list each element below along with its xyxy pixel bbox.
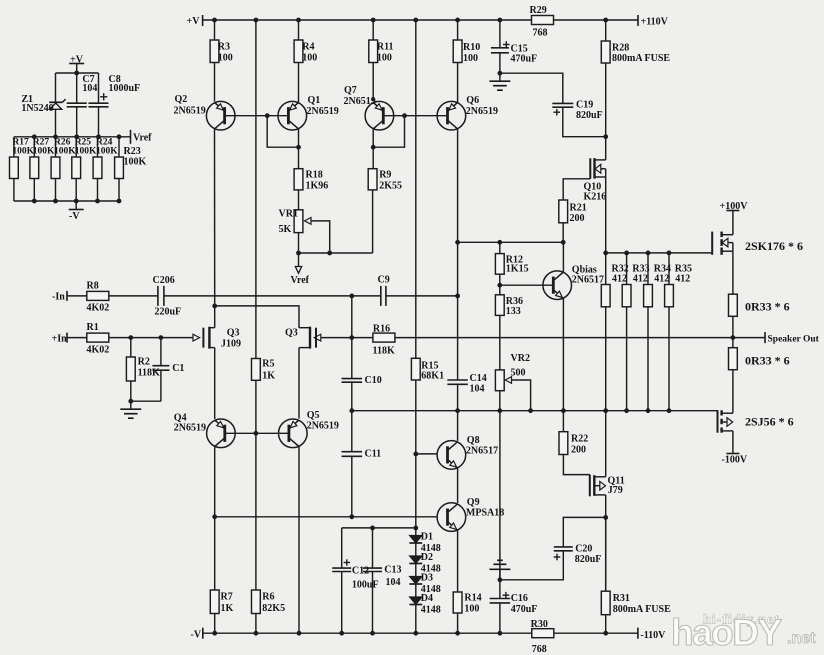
wire Qbias emitter (562, 299, 564, 411)
node bus/VR2wiper (528, 408, 533, 413)
node vref bottom (32, 199, 37, 204)
capacitor C7 (67, 73, 87, 137)
svg-text:1K: 1K (262, 370, 275, 381)
svg-text:D4: D4 (421, 593, 433, 604)
resistor R18 (294, 169, 328, 192)
wire Q11 source down (605, 495, 607, 591)
svg-text:R9: R9 (379, 170, 391, 181)
resistor R5 (252, 358, 276, 381)
label R23 (124, 146, 147, 168)
svg-text:412: 412 (612, 273, 627, 284)
wire R15 column (415, 20, 417, 358)
wire R5 bottom (255, 380, 257, 433)
svg-text:118K: 118K (373, 345, 395, 356)
node Q7e/R9 (371, 145, 376, 150)
svg-text:R4: R4 (302, 42, 314, 53)
svg-text:R21: R21 (570, 202, 587, 213)
wire R5 column (255, 20, 257, 359)
wire R1 to JFET gate (109, 337, 193, 339)
svg-text:Q9: Q9 (467, 497, 480, 508)
node bus/VR2 (497, 408, 502, 413)
net Vref tap (131, 130, 153, 144)
svg-text:0R33 * 6: 0R33 * 6 (745, 354, 790, 368)
svg-text:Q1: Q1 (308, 95, 321, 106)
svg-text:100K: 100K (96, 147, 118, 157)
capacitor C12 (332, 559, 351, 571)
label C14 (470, 373, 487, 395)
node rail/R11 (371, 18, 376, 23)
svg-text:104: 104 (470, 384, 485, 395)
svg-text:412: 412 (633, 273, 648, 284)
wire C1 leads (160, 338, 162, 402)
node C15 gnd (498, 71, 503, 76)
svg-text:118K: 118K (138, 368, 160, 379)
svg-text:2N6519: 2N6519 (307, 106, 339, 117)
wire C11 top (351, 411, 353, 452)
svg-text:2N6519: 2N6519 (466, 106, 498, 117)
wire Q7-Q6 base tie (383, 115, 447, 117)
svg-text:R10: R10 (463, 42, 480, 53)
node rail/R15col (413, 18, 418, 23)
svg-text:R5: R5 (262, 358, 274, 369)
resistor R29 (530, 5, 554, 39)
resistor R3 (210, 20, 233, 64)
node rail/R28 (603, 18, 608, 23)
resistor R11 (369, 20, 394, 64)
wire R4-Q1 (298, 63, 300, 103)
svg-text:C19: C19 (576, 100, 593, 111)
wire Q2-Q1 base tie (225, 115, 289, 117)
node -v/C13 (370, 631, 375, 636)
node vref bottom (95, 199, 100, 204)
node rail/R10 (455, 18, 460, 23)
wire Qbias collector (562, 242, 564, 272)
label Q11 (608, 475, 625, 496)
svg-text:2N6519: 2N6519 (344, 96, 376, 107)
wire R12 top (499, 242, 501, 253)
wire Q10 source to bus (605, 177, 607, 253)
jfet Q3 right (299, 327, 321, 349)
svg-text:R22: R22 (571, 434, 588, 445)
wire C20 top lead (563, 517, 605, 547)
capacitor C19 (552, 103, 573, 115)
label C20 (575, 544, 602, 565)
node -inline/C14col (455, 294, 460, 299)
label Qbias (572, 265, 604, 286)
wire C9 to C14col (386, 295, 458, 297)
svg-text:D3: D3 (421, 573, 433, 584)
svg-text:C1: C1 (172, 363, 184, 374)
svg-text:-110V: -110V (640, 630, 666, 641)
label Q3 right (285, 327, 298, 338)
svg-text:820uF: 820uF (575, 554, 602, 565)
node -v/R14 (455, 631, 460, 636)
label Q2 (174, 94, 206, 117)
wire C206 to C9 (164, 295, 381, 297)
resistor R16 (373, 323, 395, 356)
svg-text:C20: C20 (575, 544, 592, 555)
node rail/R5col (254, 18, 259, 23)
resistor R9 (368, 169, 402, 192)
resistor R26 (51, 137, 76, 201)
wire Q3R source down (298, 348, 300, 419)
node vrefbus c (74, 134, 79, 139)
svg-text:-In: -In (52, 292, 65, 303)
svg-text:C10: C10 (365, 375, 382, 386)
wire Q3L source down (214, 348, 216, 419)
svg-text:768: 768 (533, 28, 548, 39)
svg-text:470uF: 470uF (511, 604, 538, 615)
svg-text:500: 500 (511, 368, 526, 379)
node bus/C14 (455, 408, 460, 413)
node speaker out (731, 335, 736, 340)
wire +V stem (76, 64, 78, 74)
svg-text:Q8: Q8 (467, 435, 480, 446)
transistor Q9 (437, 503, 466, 532)
svg-text:100: 100 (302, 53, 317, 64)
node R15/Q8base (413, 452, 418, 457)
node biasline/R12 (497, 240, 502, 245)
node ubus/R35 (667, 251, 672, 256)
svg-text:Vref: Vref (133, 133, 152, 144)
capacitor C1 (152, 366, 169, 371)
wire R36 bottom to VR2 (499, 315, 501, 370)
resistor R14 (453, 592, 481, 614)
wire base to Q7 emitter (373, 116, 404, 148)
transistor Qbias (543, 271, 572, 300)
svg-text:800mA FUSE: 800mA FUSE (612, 53, 670, 64)
svg-text:200: 200 (571, 445, 586, 456)
node Q11s/C20 (603, 515, 608, 520)
capacitor C13 (363, 568, 382, 571)
net +110V (638, 15, 669, 28)
svg-text:1K96: 1K96 (306, 181, 329, 192)
node wiper/bus (327, 251, 332, 256)
transistor Q6 (437, 101, 466, 130)
svg-text:2N6519: 2N6519 (307, 420, 339, 431)
wire R3-Q2 (214, 63, 216, 102)
node vref bottom (74, 199, 79, 204)
wire Q8 base lead (416, 453, 437, 455)
resistor R7 (210, 590, 233, 614)
wire R21 bottom (562, 223, 564, 243)
pot VR2 (495, 353, 530, 391)
wire Q7 emitter down (372, 129, 374, 169)
label Q7 (344, 85, 376, 107)
label D3 (421, 573, 441, 596)
node Q1Q2 base (265, 113, 270, 118)
node gnd2/C16 (498, 577, 503, 582)
node biasline/Q6e (455, 240, 460, 245)
svg-text:-100V: -100V (722, 455, 748, 466)
net Vref arrow (291, 253, 310, 286)
wire vref bottom bus (14, 200, 119, 202)
svg-text:J79: J79 (608, 485, 623, 496)
svg-text:R1: R1 (87, 322, 99, 333)
node -v/C12 (339, 631, 344, 636)
svg-text:R8: R8 (87, 281, 99, 292)
node vref bottom (117, 199, 122, 204)
label D2 (421, 552, 441, 575)
label Q5 (307, 410, 339, 432)
transistor Q5 (279, 419, 308, 448)
label 2SJ56 (745, 415, 794, 429)
svg-text:2N6519: 2N6519 (174, 423, 206, 434)
resistor R25 (72, 137, 97, 201)
node rail/R4 (296, 18, 301, 23)
svg-text:100K: 100K (124, 157, 147, 168)
wire drain feed across (215, 306, 299, 328)
wire C15 node to C19 (500, 73, 563, 103)
label Z1 (21, 94, 53, 114)
svg-text:133: 133 (506, 306, 521, 317)
svg-text:haoDY: haoDY (671, 612, 783, 653)
wire R6 column (255, 433, 257, 590)
svg-text:412: 412 (654, 273, 669, 284)
svg-text:1K: 1K (221, 603, 234, 614)
svg-text:R18: R18 (306, 170, 323, 181)
resistor R15 (411, 358, 444, 381)
svg-text:100K: 100K (75, 147, 97, 157)
label Q4 (174, 413, 206, 434)
resistor R2 (126, 357, 160, 382)
node -v/R7 (212, 631, 217, 636)
resistor 0R33 top (729, 294, 790, 316)
mosfet 2SJ56 * 6 (718, 410, 733, 433)
label C206 (153, 275, 182, 318)
wire R14 bottom (457, 613, 459, 633)
wire Q6e node down (457, 242, 459, 296)
node vrefbus a (32, 134, 37, 139)
resistor R31 (601, 591, 671, 615)
svg-text:100K: 100K (12, 147, 34, 157)
wire Q10 gate lead (563, 179, 590, 200)
wire Vref bus (14, 136, 131, 138)
net -110V (638, 628, 666, 641)
label D4 (421, 593, 441, 616)
wire R9 bottom (372, 190, 374, 253)
wire R31 from Q11 (605, 517, 607, 591)
svg-text:VR1: VR1 (279, 209, 298, 220)
wire +V top rail (203, 19, 532, 21)
pot VR2 wiper (505, 377, 530, 411)
svg-text:R2: R2 (138, 357, 150, 368)
label C9 (378, 275, 390, 286)
node Q4e/Q9base (212, 514, 217, 519)
wire C11 bottom (351, 456, 353, 517)
svg-text:VR2: VR2 (511, 353, 530, 364)
wire R8 to C206 (109, 295, 158, 297)
svg-text:+110V: +110V (641, 17, 669, 28)
wire Q11 gate lead (563, 455, 589, 475)
ground (input) (120, 401, 141, 418)
wire Q2 collector down (214, 129, 216, 306)
svg-text:Q6: Q6 (466, 95, 479, 106)
wire Q11 drain up (605, 411, 607, 477)
capacitor C8 (89, 73, 109, 137)
svg-text:D1: D1 (421, 532, 433, 543)
wire C10 top (351, 338, 353, 379)
svg-text:68K1: 68K1 (421, 371, 444, 382)
node vref top/C7 (74, 71, 79, 76)
node C11/Q9base (349, 514, 354, 519)
resistor R4 (294, 20, 317, 64)
diodes D1-D4 chain (409, 528, 422, 633)
wire Q4e to R7 (214, 517, 216, 590)
transistor Q2 (206, 101, 235, 130)
svg-text:Vref: Vref (291, 275, 310, 286)
wire R16 to output (395, 337, 733, 339)
jfet Q3 left (193, 327, 215, 349)
zener Z1 (49, 99, 65, 137)
pot VR1 (279, 209, 303, 236)
svg-text:100: 100 (464, 603, 479, 614)
label D1 (421, 532, 441, 555)
svg-text:+In: +In (52, 334, 68, 345)
svg-text:2K55: 2K55 (379, 181, 402, 192)
svg-text:100K: 100K (54, 147, 76, 157)
svg-text:200: 200 (570, 213, 585, 224)
node biasline/R21 (561, 240, 566, 245)
svg-text:K216: K216 (584, 191, 607, 202)
net +In (52, 333, 68, 345)
node Qbias base (497, 283, 502, 288)
node fb/gate (349, 335, 354, 340)
wire VR1 bottom (298, 233, 300, 253)
wire Q1 emitter down (298, 129, 300, 169)
net Speaker Out (733, 332, 820, 344)
wire R7 bottom (214, 614, 216, 634)
svg-text:R14: R14 (464, 592, 481, 603)
resistor R22 (559, 432, 588, 456)
resistor R12 (495, 254, 528, 275)
svg-text:R31: R31 (613, 593, 630, 604)
svg-text:104: 104 (386, 577, 401, 588)
node +in/C1 (159, 335, 164, 340)
node gnd node (128, 399, 133, 404)
ground (inverted, C16) (489, 560, 510, 580)
wire Q8 collector (457, 411, 459, 441)
mosfet Q10 (590, 158, 605, 179)
svg-text:J109: J109 (221, 339, 241, 350)
node +in/R2 (128, 335, 133, 340)
node lbus/R34 (646, 408, 651, 413)
wire R10-Q6 (457, 63, 459, 103)
resistor R21 (559, 200, 587, 224)
svg-text:C13: C13 (384, 565, 401, 576)
wire Q5 emitter down (298, 447, 300, 634)
resistor R36 (495, 295, 523, 317)
svg-text:C206: C206 (153, 275, 175, 286)
wire C12 leads (341, 528, 343, 633)
node -inline/C10col (349, 294, 354, 299)
wire Q3R gate lead (321, 337, 352, 339)
label 2SK176 (745, 239, 803, 253)
label C8 (109, 74, 141, 94)
node rail/R3 (212, 18, 217, 23)
svg-text:D2: D2 (421, 552, 433, 563)
wire Q9 emitter (457, 530, 459, 592)
wire +In lead (67, 337, 87, 339)
capacitor C11 (342, 452, 363, 457)
net +V label (top rail) (187, 15, 203, 27)
svg-text:220uF: 220uF (155, 307, 182, 318)
node rail/C15 (498, 18, 503, 23)
node ubus/R33 (624, 251, 629, 256)
wire 2SK176 drain (732, 211, 734, 235)
svg-text:100: 100 (463, 53, 478, 64)
svg-text:768: 768 (532, 644, 547, 655)
svg-text:100K: 100K (33, 147, 55, 157)
resistor R24 (93, 137, 118, 201)
wire bus to gnd2 (499, 411, 501, 580)
node -v/C16 (498, 631, 503, 636)
resistor R33 (622, 253, 649, 411)
wire zener top lead (55, 73, 57, 102)
resistor R17 (10, 137, 35, 201)
node -v/R6 (254, 631, 259, 636)
svg-text:R30: R30 (531, 619, 548, 630)
net -V (bottom) (191, 628, 203, 641)
mosfet Q11 (590, 475, 606, 497)
mosfet 2SK176 * 6 (712, 232, 733, 255)
node diodebus/R15col (413, 526, 418, 531)
svg-text:2N6519: 2N6519 (174, 106, 206, 117)
wire R12-R36 (499, 274, 501, 295)
svg-text:R28: R28 (612, 42, 629, 53)
resistor R35 (665, 253, 692, 411)
svg-text:Q5: Q5 (307, 410, 320, 421)
label C11 (365, 448, 382, 459)
node Q4Q5 base/R5 (254, 431, 259, 436)
resistor 0R33 bottom (729, 338, 790, 370)
svg-text:2SJ56 * 6: 2SJ56 * 6 (745, 415, 794, 429)
resistor R8 (87, 281, 110, 314)
svg-text:4148: 4148 (421, 605, 441, 616)
label Q8 (466, 435, 498, 457)
transistor Q7 (365, 101, 394, 130)
capacitor C14 (447, 296, 468, 411)
svg-text:800mA FUSE: 800mA FUSE (613, 604, 671, 615)
wire 2SJ56 drain (732, 431, 734, 454)
svg-text:2SK176 * 6: 2SK176 * 6 (745, 239, 803, 253)
label Q10 (584, 181, 607, 202)
label C10 (365, 375, 382, 386)
svg-text:R11: R11 (377, 42, 394, 53)
svg-text:4K02: 4K02 (87, 303, 110, 314)
svg-text:R16: R16 (373, 323, 390, 334)
node jfet drain feed (212, 304, 217, 309)
wire 2SK176 source (732, 251, 734, 294)
wire C1 to R2 bottom (131, 400, 161, 402)
node diodebus/C13 (370, 526, 375, 531)
ground (C15) (489, 73, 510, 90)
wire C19 to Q10 drain node (563, 107, 606, 137)
node vrefbus e (117, 134, 122, 139)
wire R11-Q7 (372, 63, 374, 102)
node Q7Q6 base (402, 113, 407, 118)
svg-text:82K5: 82K5 (262, 603, 285, 614)
label C16 (511, 593, 538, 615)
svg-text:+V: +V (187, 16, 201, 27)
svg-text:R6: R6 (262, 592, 274, 603)
resistor R27 (30, 137, 55, 201)
capacitor C206 (158, 286, 164, 306)
wire lower gate bus (352, 410, 718, 412)
wire Q6e bias node line (458, 241, 564, 243)
label Q3 left (221, 327, 241, 349)
node ubus/R32 (603, 251, 608, 256)
